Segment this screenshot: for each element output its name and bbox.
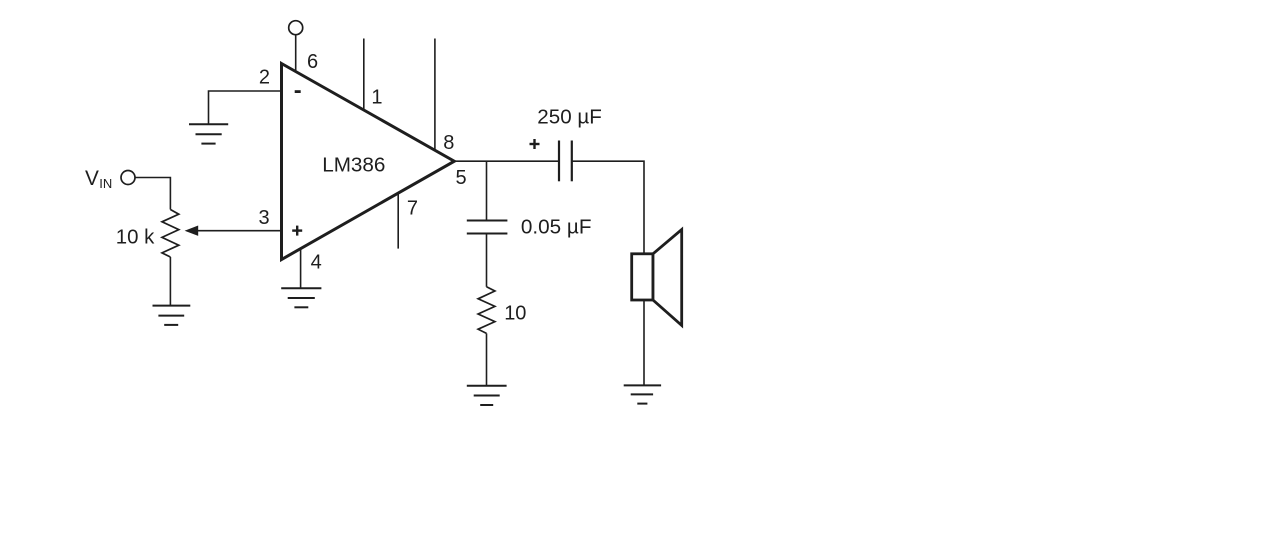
wire zobel branch down from output node	[486, 161, 488, 220]
capacitor C2 0.05 uF plates	[467, 221, 508, 234]
wire pin 7	[397, 194, 399, 249]
svg-text:LM386: LM386	[322, 153, 385, 176]
resistor R2 zigzag 10 ohm	[478, 287, 495, 334]
wire pot bottom to ground	[169, 257, 171, 306]
non-inverting input plus mark	[292, 226, 302, 236]
svg-text:5: 5	[456, 167, 467, 189]
svg-text:2: 2	[259, 67, 270, 89]
svg-text:IN: IN	[99, 176, 112, 191]
wire input terminal to potentiometer top	[135, 178, 170, 210]
wire C1 to speaker	[572, 161, 644, 254]
wiper arrow to pin 3	[185, 226, 282, 236]
wire R2 to ground	[486, 333, 488, 385]
plus polarity mark for C1	[530, 139, 540, 149]
inverting input minus mark	[295, 90, 301, 93]
wire pin 4 to ground	[300, 249, 302, 288]
wire pin 1	[363, 39, 365, 111]
wire pin 8	[434, 39, 436, 151]
input terminal circle	[121, 171, 135, 185]
svg-text:8: 8	[443, 132, 454, 154]
svg-text:1: 1	[371, 87, 382, 109]
ground under speaker	[624, 385, 661, 403]
ground at pin 4	[281, 288, 321, 307]
speaker LS1 cone	[653, 230, 682, 326]
potentiometer R1 zigzag	[162, 210, 179, 258]
svg-text:250 µF: 250 µF	[537, 105, 602, 128]
wire output pin 5 to capacitor C1	[454, 160, 559, 162]
terminal pin 6	[289, 21, 303, 35]
svg-text:10 k: 10 k	[116, 226, 155, 248]
svg-text:7: 7	[407, 197, 418, 219]
svg-text:4: 4	[311, 251, 322, 273]
ground under potentiometer	[153, 306, 191, 325]
label VIN	[85, 167, 112, 191]
wire speaker to ground	[643, 300, 645, 385]
ground under R2	[467, 386, 507, 405]
svg-text:3: 3	[258, 207, 269, 229]
speaker LS1 box	[632, 254, 653, 300]
op-amp U1 triangle	[282, 64, 455, 260]
svg-text:V: V	[85, 167, 99, 190]
wire pin 2 to ground	[209, 91, 282, 124]
capacitor C1 250 uF plates	[559, 141, 572, 182]
wire pin 6	[295, 35, 297, 72]
svg-text:10: 10	[504, 303, 526, 325]
svg-text:6: 6	[307, 51, 318, 73]
ground at pin 2	[189, 124, 228, 143]
svg-text:0.05 µF: 0.05 µF	[521, 216, 592, 239]
wire C2 to resistor R2	[486, 234, 488, 287]
